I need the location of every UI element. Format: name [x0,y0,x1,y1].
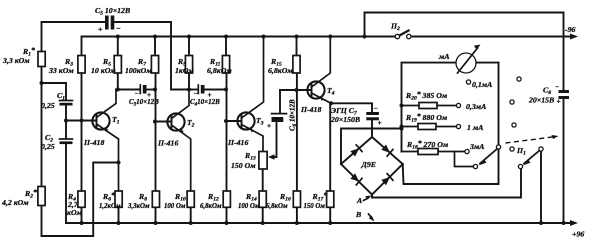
svg-text:+96: +96 [572,230,584,239]
svg-text:−: − [555,83,559,91]
svg-text:3,3 кОм: 3,3 кОм [2,56,30,65]
svg-text:0,1мА: 0,1мА [472,80,492,89]
svg-text:150 Ом: 150 Ом [304,203,326,210]
svg-text:10 кОм: 10 кОм [91,66,116,75]
svg-text:6,8кОм: 6,8кОм [200,203,222,210]
svg-text:33 кОм: 33 кОм [48,66,74,75]
svg-text:1,2кОм: 1,2кОм [99,203,121,210]
svg-text:0,3мА: 0,3мА [466,102,486,111]
svg-text:Д9Е: Д9Е [361,160,376,169]
svg-text:0,25: 0,25 [41,101,55,110]
svg-text:кОм: кОм [67,208,83,217]
svg-text:+: + [98,25,103,34]
svg-text:20×15В: 20×15В [528,96,554,105]
svg-text:100 Ом: 100 Ом [164,203,186,210]
svg-text:0,25: 0,25 [41,142,55,151]
svg-text:-96: -96 [565,25,575,34]
svg-text:−: − [194,90,198,98]
svg-text:150 Ом: 150 Ом [231,161,256,170]
svg-text:20×150В: 20×150В [330,115,360,124]
svg-text:−: − [135,90,139,98]
svg-text:мА: мА [438,52,450,61]
svg-text:4,2 кОм: 4,2 кОм [1,198,29,207]
svg-text:П-416: П-416 [157,139,178,148]
svg-text:+: + [267,122,271,130]
svg-text:100кОм: 100кОм [125,66,152,75]
svg-text:+: + [557,98,561,106]
svg-text:1 мА: 1 мА [467,123,483,132]
svg-text:1кОм: 1кОм [175,66,194,75]
svg-text:П-418: П-418 [83,138,104,147]
svg-text:П-418: П-418 [300,105,321,114]
svg-text:3,3кОм: 3,3кОм [127,203,150,210]
svg-text:В: В [355,210,361,219]
svg-text:6,8кОм: 6,8кОм [268,66,293,75]
svg-text:+: + [378,119,382,127]
svg-text:−: − [116,24,121,33]
svg-text:6,8кОм: 6,8кОм [207,66,232,75]
svg-text:100 Ом: 100 Ом [238,203,260,210]
svg-text:А: А [356,196,362,205]
svg-text:3мА: 3мА [469,142,484,151]
svg-text:C410×12В: C410×12В [190,98,220,107]
svg-text:C310×12В: C310×12В [129,98,159,107]
svg-text:П-416: П-416 [227,138,248,147]
svg-text:−: − [374,105,378,113]
svg-text:6,8кОм: 6,8кОм [266,203,288,210]
